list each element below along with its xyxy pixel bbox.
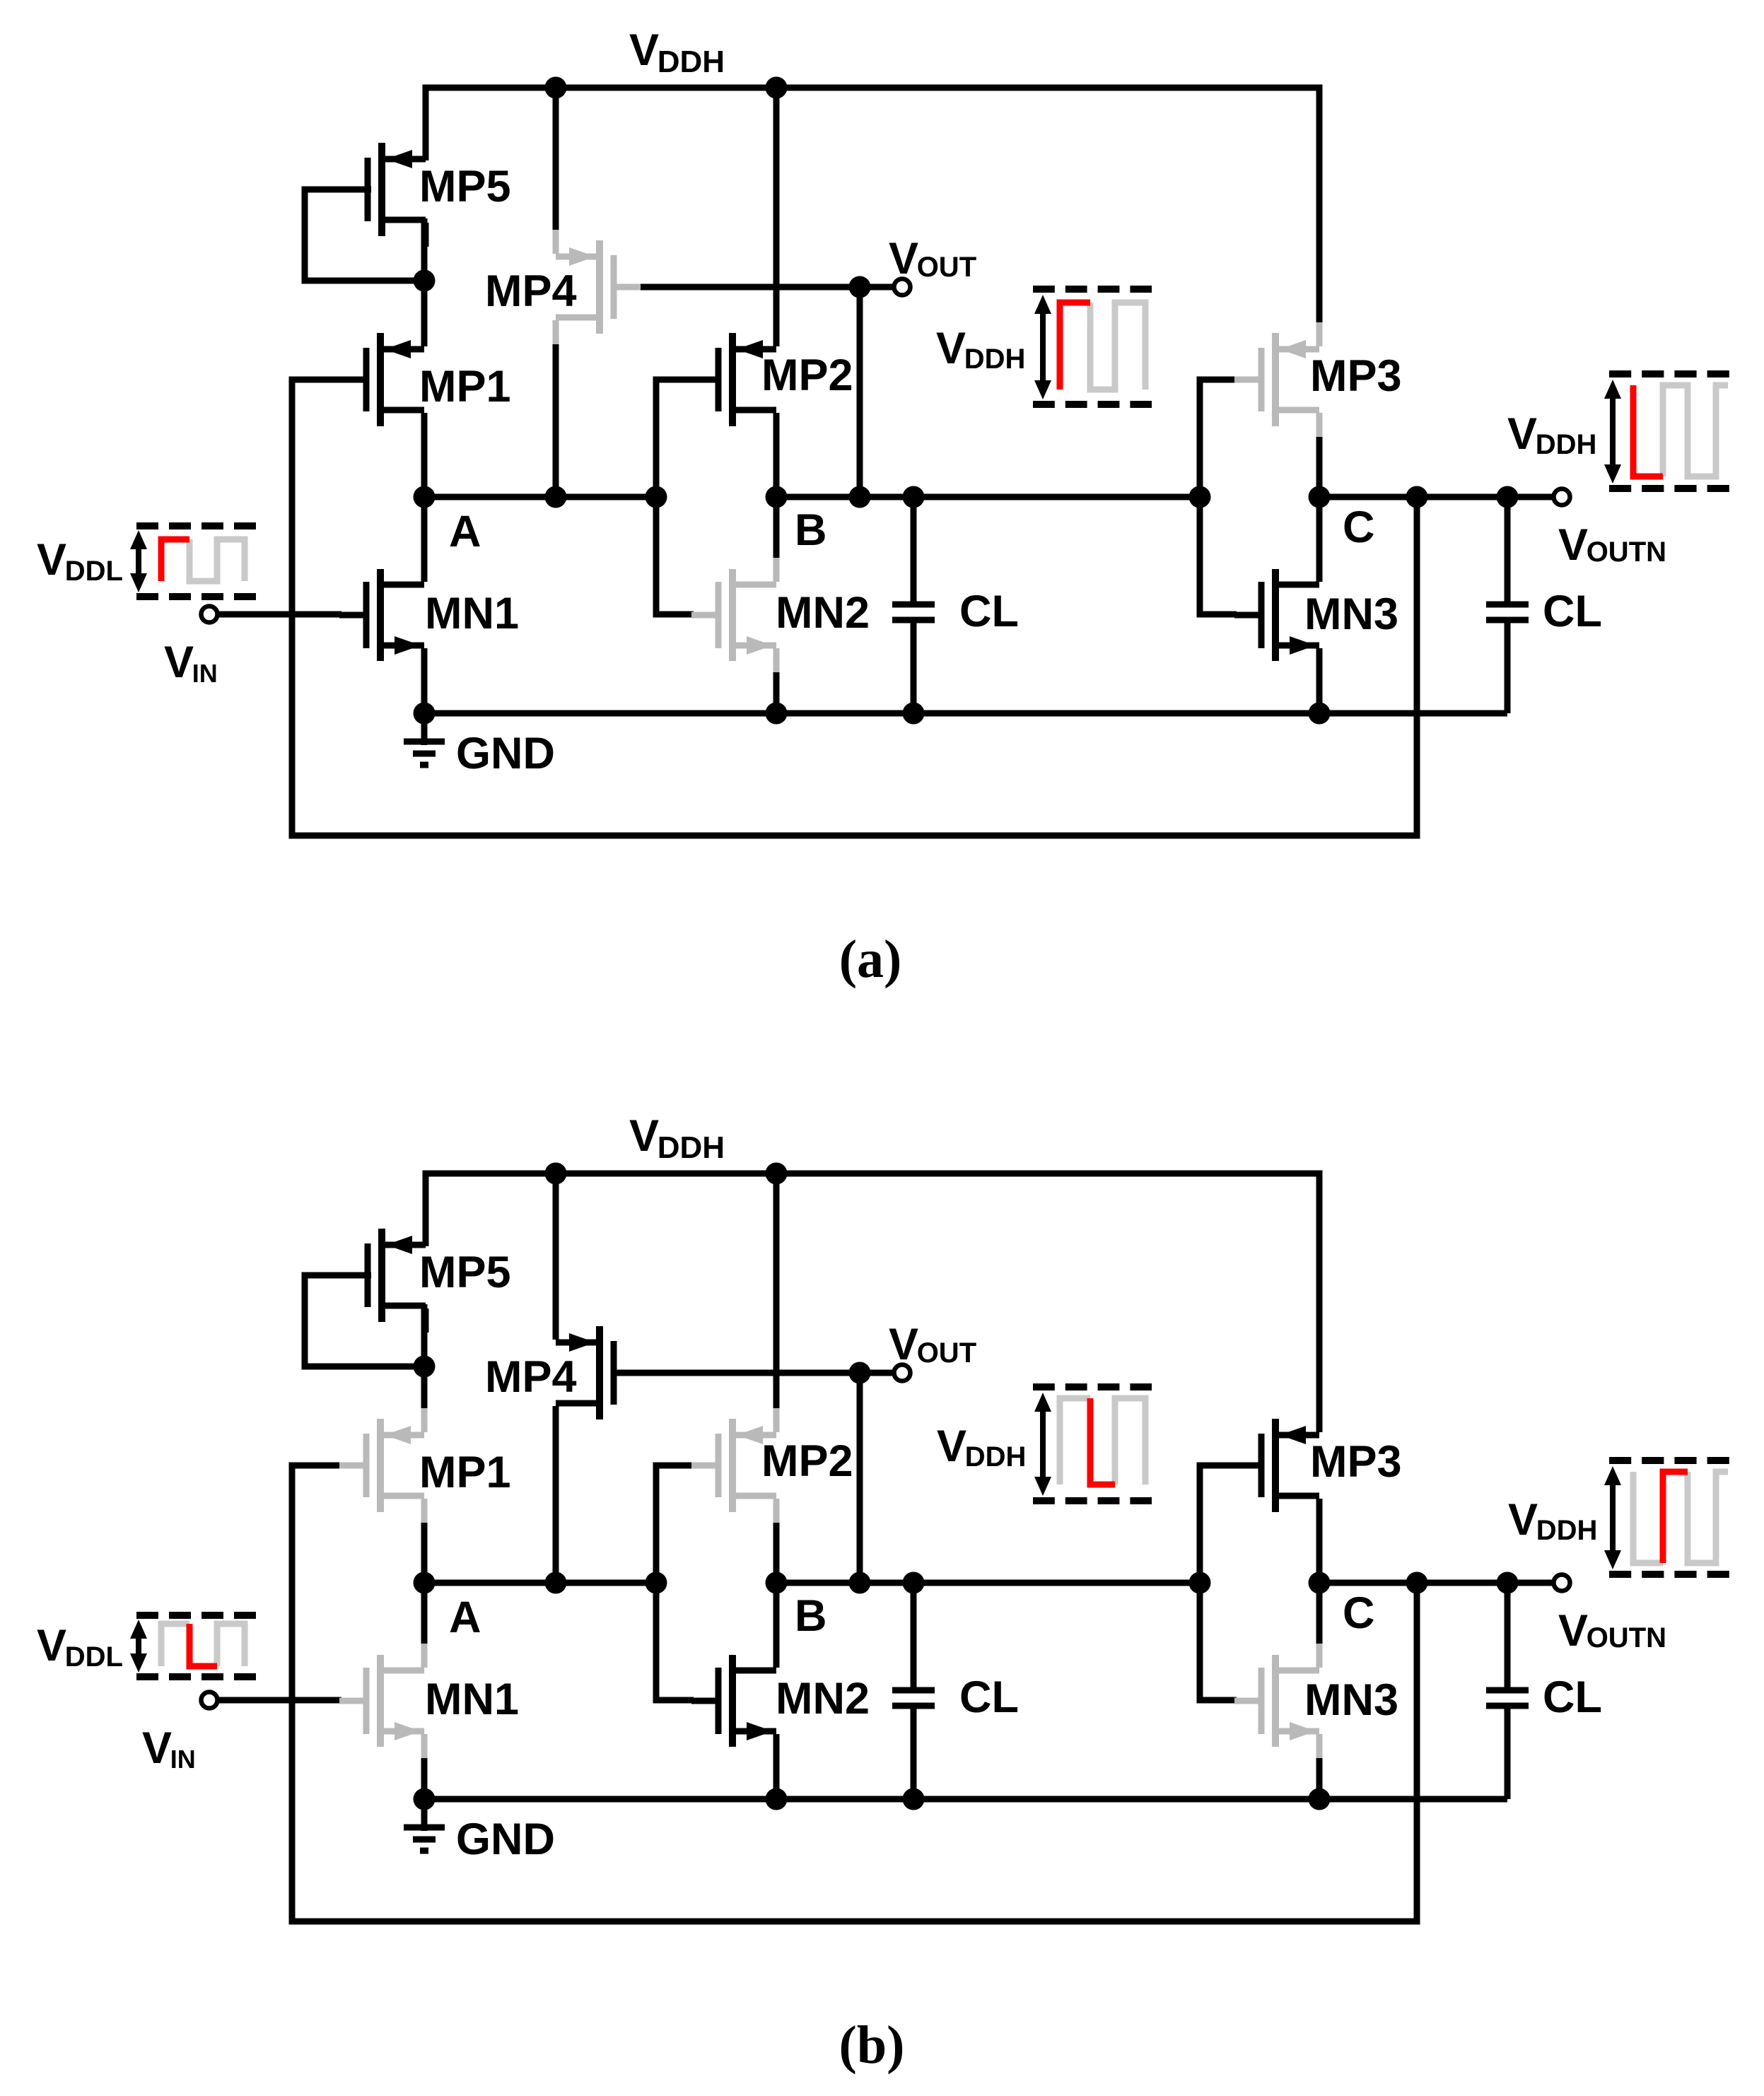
svg-text:MP1: MP1: [419, 1448, 511, 1497]
svg-text:B: B: [795, 505, 827, 555]
svg-text:MP4: MP4: [485, 267, 577, 316]
svg-text:CL: CL: [1543, 1673, 1602, 1722]
svg-text:DDH: DDH: [964, 344, 1026, 375]
svg-text:V: V: [629, 25, 659, 75]
svg-text:CL: CL: [1543, 587, 1602, 636]
svg-text:MN3: MN3: [1304, 590, 1398, 639]
svg-text:MP3: MP3: [1310, 351, 1402, 401]
svg-text:V: V: [1507, 409, 1537, 459]
svg-text:DDH: DDH: [1536, 429, 1597, 460]
svg-text:DDH: DDH: [965, 1441, 1027, 1473]
svg-text:MP5: MP5: [419, 162, 511, 211]
svg-text:V: V: [142, 1723, 172, 1773]
svg-text:DDH: DDH: [658, 45, 725, 79]
svg-text:IN: IN: [170, 1745, 196, 1774]
svg-text:OUT: OUT: [917, 1337, 976, 1369]
svg-text:MN1: MN1: [425, 589, 519, 638]
svg-text:DDH: DDH: [658, 1130, 725, 1165]
svg-text:A: A: [449, 507, 481, 556]
svg-text:MN3: MN3: [1304, 1675, 1398, 1725]
svg-text:V: V: [1558, 520, 1588, 570]
svg-text:OUT: OUT: [917, 252, 976, 283]
svg-text:B: B: [795, 1591, 827, 1641]
svg-text:DDL: DDL: [65, 1641, 123, 1673]
svg-text:C: C: [1343, 1588, 1375, 1638]
svg-text:V: V: [937, 1422, 966, 1471]
svg-text:(b): (b): [839, 2015, 905, 2075]
svg-text:MP1: MP1: [419, 362, 511, 411]
svg-text:MN2: MN2: [776, 588, 870, 638]
svg-text:V: V: [164, 638, 194, 687]
svg-text:V: V: [936, 324, 966, 373]
svg-text:GND: GND: [456, 1815, 555, 1864]
svg-text:CL: CL: [959, 587, 1019, 636]
svg-text:MP2: MP2: [761, 1436, 853, 1486]
svg-text:MN1: MN1: [425, 1675, 519, 1724]
svg-text:MP3: MP3: [1310, 1437, 1402, 1487]
svg-text:(a): (a): [839, 930, 902, 989]
svg-text:GND: GND: [456, 729, 555, 778]
svg-text:V: V: [37, 1621, 66, 1670]
svg-text:DDL: DDL: [65, 556, 123, 587]
svg-text:V: V: [889, 234, 918, 283]
svg-text:OUTN: OUTN: [1587, 1622, 1666, 1653]
svg-text:OUTN: OUTN: [1587, 537, 1666, 568]
svg-text:MP2: MP2: [761, 351, 853, 400]
svg-text:IN: IN: [192, 659, 218, 688]
svg-text:MP4: MP4: [485, 1352, 577, 1402]
svg-text:MP5: MP5: [419, 1248, 511, 1297]
svg-text:V: V: [1558, 1606, 1588, 1656]
svg-text:DDH: DDH: [1536, 1515, 1598, 1546]
svg-text:V: V: [37, 535, 66, 585]
svg-text:MN2: MN2: [776, 1674, 870, 1723]
svg-text:V: V: [629, 1111, 659, 1161]
svg-text:V: V: [889, 1320, 918, 1369]
svg-text:V: V: [1508, 1495, 1538, 1545]
svg-text:C: C: [1343, 503, 1375, 552]
svg-text:A: A: [449, 1593, 481, 1642]
svg-text:CL: CL: [959, 1673, 1019, 1722]
